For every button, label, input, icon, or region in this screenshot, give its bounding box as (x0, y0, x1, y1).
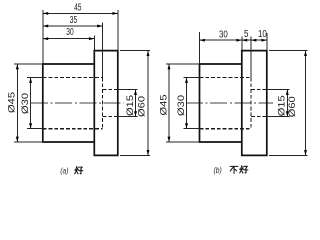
hidden bore D30 bottom line (a) (43, 128, 103, 130)
caption hao (b) (240, 166, 248, 174)
extension line left face (b) (199, 32, 201, 64)
caption bu (b) (230, 166, 238, 173)
svg-text:Ø15: Ø15 (277, 95, 287, 116)
extension lines for D45 (b) (166, 63, 200, 65)
flange outline (a): disc D60 (94, 51, 118, 156)
hidden hole D15 top line (a) (103, 89, 118, 91)
extension lines for D30 (a) (27, 77, 43, 79)
hidden hole D15 bottom line (a) (103, 116, 118, 118)
dimension D45 line (b) (168, 64, 170, 142)
svg-text:Ø45: Ø45 (159, 94, 169, 115)
svg-text:(b): (b) (214, 165, 223, 175)
svg-text:Ø60: Ø60 (288, 96, 298, 117)
extension line flange left face (a) (93, 36, 95, 51)
hidden bore D30 top line (b) (200, 77, 252, 79)
dimension 30-5-10 line (b) (200, 39, 267, 41)
svg-text:10: 10 (258, 28, 267, 39)
extension lines for D15 (b) (267, 89, 290, 91)
dimension 45 line (a) (43, 12, 118, 14)
svg-text:Ø45: Ø45 (7, 92, 17, 113)
dimension D15 line (a) (135, 90, 137, 117)
svg-text:(a): (a) (60, 166, 69, 176)
extension line left face (a) (42, 10, 44, 64)
dimension D60 line (a) (147, 51, 149, 156)
hidden bore end face (b) (250, 78, 252, 129)
extension lines for D15 (a) (118, 89, 138, 91)
hidden bore end face (a) (102, 78, 104, 129)
svg-text:30: 30 (66, 26, 74, 38)
extension lines for D30 (b) (183, 77, 199, 79)
extension line right face (b) (266, 33, 268, 51)
caption hao (a) (75, 166, 83, 174)
center line (b) (186, 102, 273, 104)
dimension D45 line (a) (16, 64, 18, 142)
hidden bore D30 top line (a) (43, 77, 103, 79)
dimension 30 line (a) (43, 38, 95, 40)
hidden bore D30 bottom line (b) (200, 128, 252, 130)
dimension D30 line (a) (30, 78, 32, 129)
dimension D30 line (b) (186, 78, 188, 129)
dimension 35 line (a) (43, 25, 103, 27)
extension line bore end (b) (250, 36, 252, 77)
extension lines for D45 (a) (14, 63, 43, 65)
extension line bore end (a) (102, 23, 104, 78)
dimension D15 line (b) (286, 90, 288, 117)
svg-text:Ø60: Ø60 (137, 96, 147, 117)
body outline (a): cylinder D45 (43, 64, 95, 142)
extension lines for D60 (a) (120, 50, 150, 52)
svg-text:30: 30 (219, 28, 228, 39)
center line (a) (31, 102, 124, 104)
extension lines for D60 (b) (269, 50, 308, 52)
flange outline (b): disc D60 (242, 51, 267, 156)
svg-text:35: 35 (70, 14, 78, 26)
hidden hole D15 top line (b) (251, 89, 267, 91)
dimension D60 line (b) (305, 51, 307, 156)
hidden hole D15 bottom line (b) (251, 116, 267, 118)
svg-text:Ø30: Ø30 (177, 95, 187, 116)
extension line right face (a) (117, 10, 119, 51)
svg-text:Ø15: Ø15 (126, 95, 136, 116)
body outline (b): cylinder D45 (200, 64, 242, 142)
extension line flange left face (b) (241, 37, 243, 51)
svg-text:45: 45 (74, 1, 82, 13)
svg-text:5: 5 (244, 28, 248, 39)
svg-text:Ø30: Ø30 (21, 93, 31, 114)
